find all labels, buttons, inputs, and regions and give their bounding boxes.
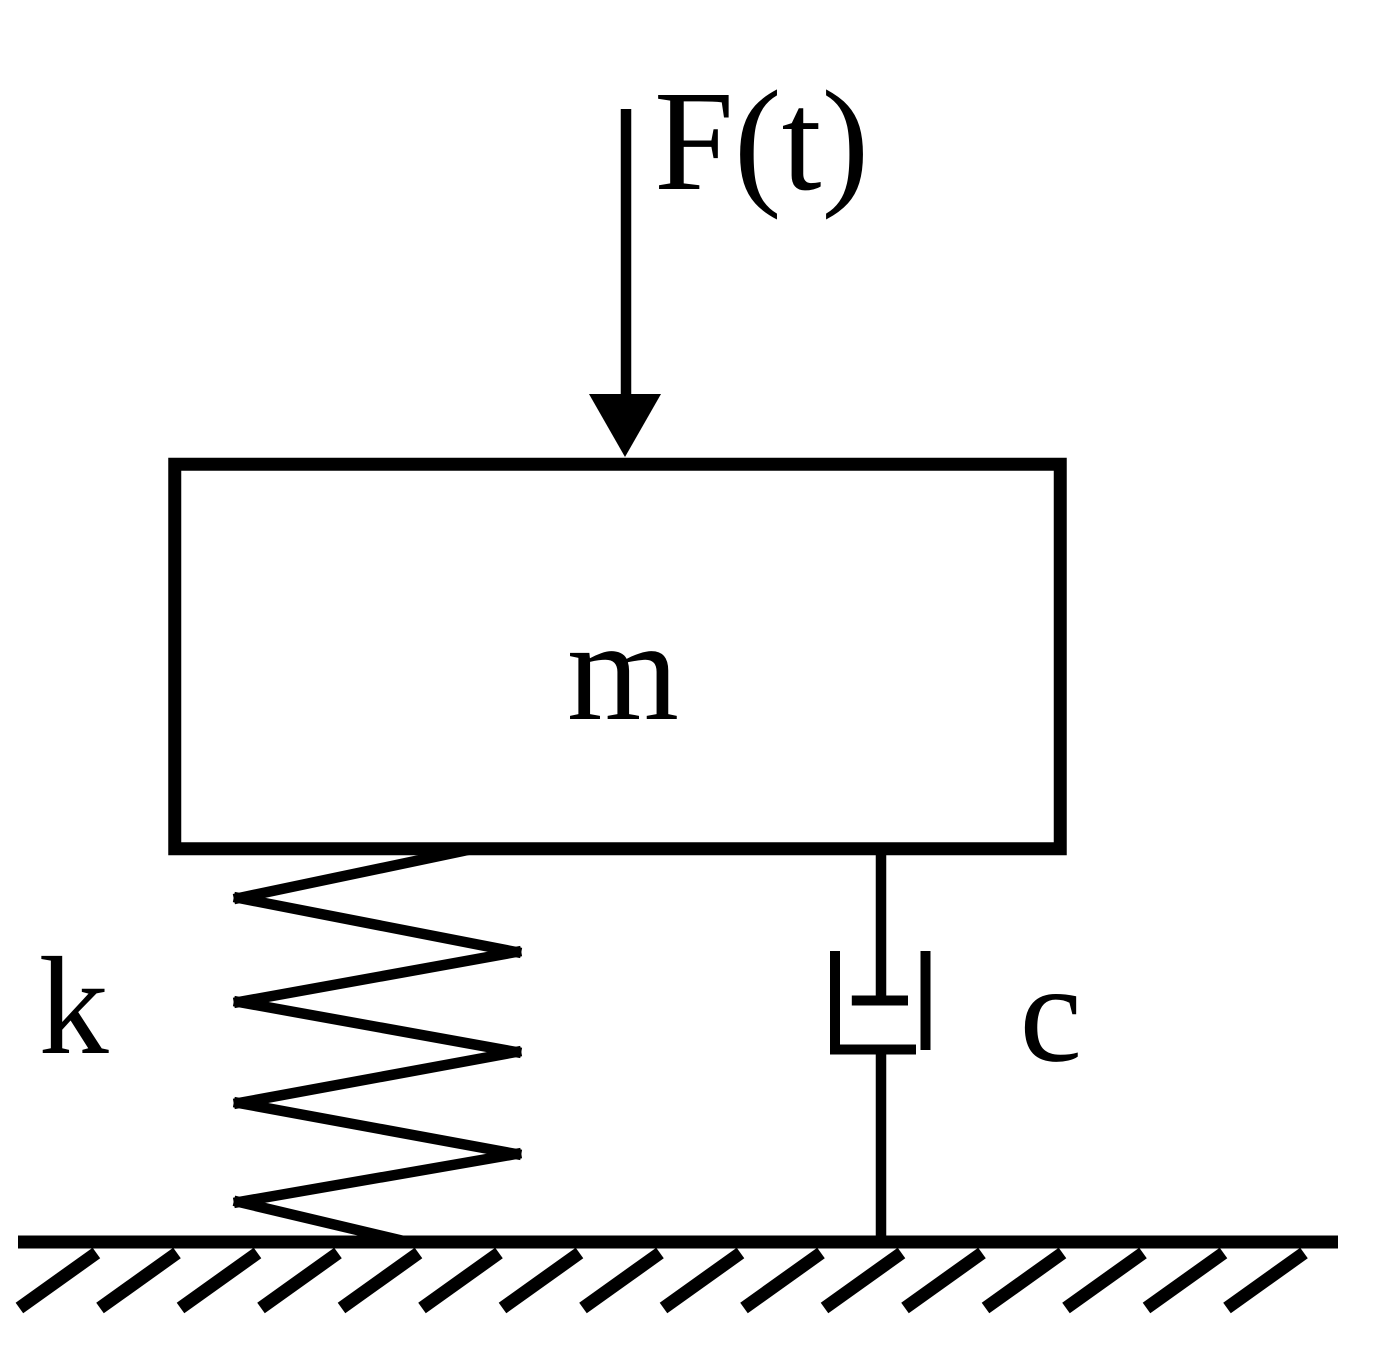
- spring k coil segment 5: [239, 1052, 516, 1103]
- ground hatch 16: [1227, 1253, 1304, 1308]
- damper c piston plate: [852, 996, 908, 1006]
- svg-text:c: c: [1020, 936, 1083, 1092]
- ground hatch 3: [181, 1253, 258, 1308]
- svg-text:k: k: [39, 929, 109, 1084]
- ground hatch 6: [422, 1253, 499, 1308]
- damper c lower rod: [876, 1049, 887, 1242]
- damper c cylinder left wall and bottom: [835, 951, 916, 1050]
- damper c cylinder right wall: [921, 951, 931, 1050]
- mass m box: [175, 464, 1061, 849]
- svg-text:F(t): F(t): [654, 62, 869, 221]
- spring k coil segment 3: [239, 952, 516, 1002]
- ground hatch 4: [261, 1253, 338, 1308]
- ground hatch 9: [664, 1253, 741, 1308]
- spring k coil segment 4: [239, 1002, 516, 1052]
- ground hatch 11: [825, 1253, 902, 1308]
- ground hatch 13: [986, 1253, 1063, 1308]
- spring k coil segment 2: [239, 898, 516, 952]
- ground hatch 8: [583, 1253, 660, 1308]
- ground hatch 10: [744, 1253, 821, 1308]
- spring k coil segment 7: [239, 1154, 516, 1202]
- spring k coil segment 8: [239, 1202, 408, 1242]
- spring k coil segment 6: [239, 1103, 516, 1154]
- force arrow F(t) shaft: [621, 109, 632, 400]
- spring k coil segment 1: [239, 851, 463, 898]
- ground hatch 1: [19, 1253, 96, 1308]
- ground hatch 2: [100, 1253, 177, 1308]
- ground hatch 7: [503, 1253, 580, 1308]
- ground hatch 15: [1147, 1253, 1224, 1308]
- ground line: [18, 1236, 1338, 1249]
- ground hatch 14: [1066, 1253, 1143, 1308]
- ground hatch 12: [905, 1253, 982, 1308]
- ground hatch 5: [342, 1253, 419, 1308]
- force arrow F(t) head: [589, 394, 661, 457]
- svg-text:m: m: [567, 592, 679, 751]
- damper c piston rod: [876, 853, 887, 1000]
